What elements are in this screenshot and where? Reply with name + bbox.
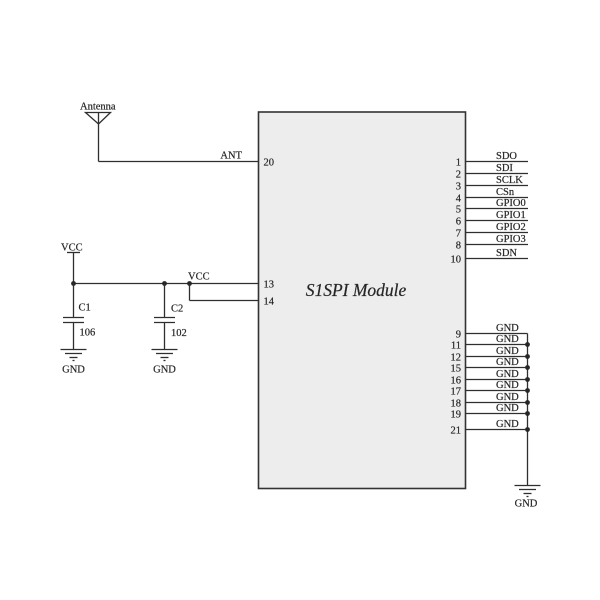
- power symbol VCC left: [61, 243, 83, 284]
- ground under C1: [61, 350, 87, 361]
- svg-text:GPIO3: GPIO3: [496, 234, 526, 245]
- svg-text:GND: GND: [496, 357, 519, 368]
- svg-text:106: 106: [80, 328, 96, 339]
- wire pin 7: [466, 232, 529, 234]
- svg-text:16: 16: [451, 375, 462, 386]
- svg-text:SDN: SDN: [496, 248, 517, 259]
- wire antenna to pin 20: [99, 161, 260, 163]
- svg-text:17: 17: [451, 386, 462, 397]
- svg-text:GND: GND: [496, 403, 519, 414]
- svg-text:21: 21: [451, 425, 462, 436]
- wire pin 17: [466, 390, 528, 392]
- wire pin 9: [466, 333, 528, 335]
- svg-text:SDI: SDI: [496, 163, 513, 174]
- svg-text:GND: GND: [496, 334, 519, 345]
- svg-text:GND: GND: [496, 392, 519, 403]
- wire pin 4: [466, 197, 529, 199]
- svg-text:SDO: SDO: [496, 151, 517, 162]
- svg-text:18: 18: [451, 398, 462, 409]
- wire pin 16: [466, 379, 528, 381]
- svg-text:GND: GND: [496, 323, 519, 334]
- svg-text:ANT: ANT: [220, 151, 242, 162]
- junction at C2: [162, 281, 167, 286]
- svg-text:13: 13: [264, 279, 275, 290]
- svg-text:GND: GND: [496, 380, 519, 391]
- antenna: [86, 113, 111, 162]
- ground under C2: [152, 350, 178, 361]
- svg-text:S1SPI Module: S1SPI Module: [306, 280, 407, 300]
- capacitor C2: [154, 284, 175, 350]
- svg-text:C1: C1: [79, 303, 91, 314]
- junction at VCC branch: [187, 281, 192, 286]
- svg-text:SCLK: SCLK: [496, 175, 523, 186]
- wire branch to pin 14: [190, 284, 260, 301]
- svg-text:GPIO2: GPIO2: [496, 222, 526, 233]
- svg-text:2: 2: [456, 169, 461, 180]
- junction at C1: [71, 281, 76, 286]
- wire pin 5: [466, 208, 529, 210]
- wire GND bus vertical: [527, 334, 529, 486]
- svg-text:GND: GND: [496, 369, 519, 380]
- junction pin 17: [525, 388, 530, 393]
- wire pin 11: [466, 344, 528, 346]
- wire VCC rail to pin 13: [74, 283, 260, 285]
- svg-text:9: 9: [456, 329, 461, 340]
- svg-text:102: 102: [171, 328, 187, 339]
- svg-text:Antenna: Antenna: [80, 102, 116, 113]
- wire pin 21: [466, 429, 528, 431]
- wire pin 15: [466, 367, 528, 369]
- svg-text:7: 7: [456, 228, 461, 239]
- svg-text:VCC: VCC: [188, 272, 210, 283]
- svg-text:GND: GND: [62, 365, 85, 376]
- svg-text:6: 6: [456, 216, 461, 227]
- svg-text:GND: GND: [496, 346, 519, 357]
- junction pin 18: [525, 400, 530, 405]
- wire pin 12: [466, 356, 528, 358]
- svg-text:15: 15: [451, 363, 462, 374]
- wire pin 19: [466, 413, 528, 415]
- svg-text:GND: GND: [153, 365, 176, 376]
- capacitor C1: [63, 284, 84, 350]
- junction pin 15: [525, 365, 530, 370]
- ground lower right: [515, 486, 541, 497]
- svg-text:C2: C2: [171, 304, 183, 315]
- svg-text:8: 8: [456, 240, 461, 251]
- junction pin 16: [525, 377, 530, 382]
- svg-text:GPIO1: GPIO1: [496, 210, 526, 221]
- svg-text:CSn: CSn: [496, 187, 515, 198]
- svg-text:11: 11: [451, 340, 461, 351]
- wire pin 8: [466, 244, 529, 246]
- svg-text:10: 10: [451, 254, 462, 265]
- junction pin 21: [525, 427, 530, 432]
- svg-text:14: 14: [264, 296, 275, 307]
- svg-text:5: 5: [456, 204, 461, 215]
- wire pin 10: [466, 258, 529, 260]
- wire pin 2: [466, 173, 529, 175]
- svg-text:1: 1: [456, 157, 461, 168]
- svg-text:GND: GND: [515, 499, 538, 510]
- svg-text:20: 20: [264, 157, 275, 168]
- junction pin 19: [525, 411, 530, 416]
- wire pin 6: [466, 220, 529, 222]
- junction pin 12: [525, 354, 530, 359]
- svg-text:12: 12: [451, 352, 462, 363]
- svg-text:4: 4: [456, 193, 462, 204]
- module U1 S1SPI Module: [259, 112, 466, 489]
- wire pin 3: [466, 185, 529, 187]
- wire pin 1: [466, 161, 529, 163]
- svg-text:19: 19: [451, 409, 462, 420]
- svg-text:GPIO0: GPIO0: [496, 198, 526, 209]
- junction pin 11: [525, 342, 530, 347]
- svg-text:VCC: VCC: [61, 243, 83, 254]
- wire pin 18: [466, 402, 528, 404]
- svg-text:GND: GND: [496, 419, 519, 430]
- svg-text:3: 3: [456, 181, 461, 192]
